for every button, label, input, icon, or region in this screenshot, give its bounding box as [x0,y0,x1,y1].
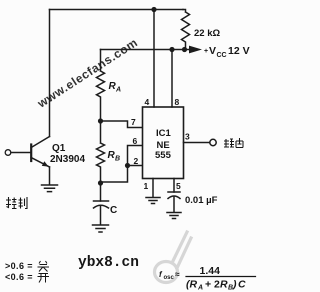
ground (C) [93,225,109,232]
svg-text:A: A [115,87,121,94]
Q1 base bar [30,145,32,162]
svg-text:4: 4 [145,97,150,107]
terminal input circle [5,150,11,156]
capacitor 0.01uF [168,191,180,193]
wire top rail [50,9,184,11]
svg-text:2N3904: 2N3904 [50,154,85,165]
svg-text:IC1: IC1 [156,128,172,139]
Q1 emitter [31,158,49,168]
resistor RB [97,121,105,183]
svg-text:1: 1 [144,181,149,191]
op-amp IC1 NE555 body [143,107,184,179]
power arrow Vcc [189,46,202,54]
wire left vertical (Q1 collector to top rail) [49,10,51,137]
Q1 emitter arrow [42,161,49,166]
wire pin 8 drop [171,50,173,108]
wire pin 1 to ground [152,179,154,198]
Q1 collector [31,137,49,148]
ground (pin1) [146,198,160,204]
svg-text:C: C [110,205,117,216]
svg-text:3: 3 [185,132,190,142]
label kongzhi (control) [6,197,27,209]
resistor 22k [182,10,190,50]
wire pin 3 output [184,142,210,144]
wire pin 4 drop [153,10,155,108]
svg-text:555: 555 [155,150,172,161]
wire base [11,152,31,154]
svg-text:ybx8.cn: ybx8.cn [78,255,139,271]
wire cap5 to ground [173,197,175,212]
node junction top rail / pin4 [151,7,156,12]
node pin8 junction [169,47,174,52]
svg-text:+: + [204,48,208,55]
svg-text:>0.6 =: >0.6 = [5,261,33,271]
svg-text:): ) [232,279,237,291]
svg-text:C: C [238,279,246,291]
watermark gray logo [155,232,192,283]
svg-text:<0.6 =: <0.6 = [5,272,33,282]
svg-text:V: V [209,45,216,57]
svg-text:+ 2: + 2 [205,279,220,291]
formula fosc = 1.44/((RA+2RB)C) [159,265,256,292]
svg-text:A: A [197,285,203,292]
svg-text:Q1: Q1 [52,143,66,154]
glyph guan (off) [38,261,50,272]
node pin2 junction [125,163,130,168]
wire to capacitor C [100,183,102,201]
svg-text:7: 7 [131,117,136,127]
svg-text:f: f [159,270,163,279]
wire pins 6-2 tie [101,146,143,183]
wire pin 7 [101,121,143,128]
ground (pin5) [167,213,181,219]
svg-text:12 V: 12 V [228,45,250,57]
svg-text:6: 6 [133,136,138,146]
wire pin 2 [128,165,143,167]
resistor RA [97,50,105,122]
svg-text:osc: osc [164,275,175,281]
node RA bottom junction [98,118,103,123]
glyph kai (on) [38,274,50,283]
svg-text:8: 8 [175,97,180,107]
watermark red www.elecfans.com [34,35,140,111]
label shuchu (output) [224,138,243,148]
wire cap to ground [100,206,102,225]
node 22k bottom junction [182,47,187,52]
svg-text:CC: CC [217,52,227,59]
svg-text:22 kΩ: 22 kΩ [194,28,220,39]
node RB bottom junction [98,180,103,185]
capacitor C [94,200,109,202]
svg-text:1.44: 1.44 [200,265,221,277]
svg-text:5: 5 [176,181,181,191]
svg-text:B: B [115,156,120,163]
svg-text:0.01 µF: 0.01 µF [185,195,218,206]
svg-text:2: 2 [134,156,139,166]
svg-text:≈: ≈ [175,269,180,279]
terminal output circle [210,139,216,145]
wire Vcc rail [101,49,190,51]
wire emitter to ground [49,167,51,185]
wire pin 5 [173,179,175,193]
svg-text:R: R [220,279,228,291]
ground (Q1) [42,185,58,192]
svg-text:(R: (R [186,279,197,291]
